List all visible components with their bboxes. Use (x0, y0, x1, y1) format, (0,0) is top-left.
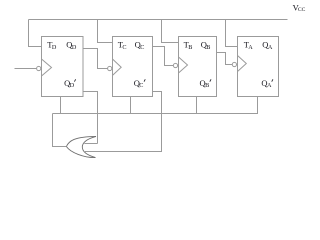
svg-text:A: A (267, 82, 272, 89)
svg-text:B: B (188, 44, 192, 51)
svg-text:D: D (70, 82, 75, 89)
svg-text:A: A (268, 44, 273, 51)
svg-text:D: D (52, 44, 57, 51)
svg-text:D: D (72, 44, 77, 51)
svg-text:C: C (140, 44, 144, 51)
svg-text:CC: CC (298, 7, 306, 13)
svg-text:B: B (205, 82, 209, 89)
svg-text:C: C (122, 44, 126, 51)
svg-text:A: A (248, 44, 253, 51)
svg-text:C: C (139, 82, 143, 89)
svg-text:B: B (206, 44, 210, 51)
